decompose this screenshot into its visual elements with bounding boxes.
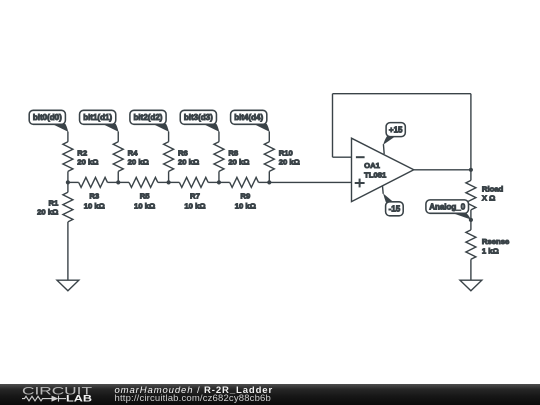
svg-text:bit0(d0): bit0(d0) [33, 113, 62, 122]
svg-text:20 kΩ: 20 kΩ [178, 158, 199, 167]
svg-text:R7: R7 [190, 192, 200, 201]
svg-text:20 kΩ: 20 kΩ [228, 158, 249, 167]
svg-text:20 kΩ: 20 kΩ [279, 158, 300, 167]
svg-text:Rload: Rload [482, 185, 504, 194]
svg-text:bit4(d4): bit4(d4) [234, 113, 263, 122]
svg-text:R1: R1 [48, 198, 59, 207]
svg-text:TL081: TL081 [364, 171, 387, 180]
svg-text:10 kΩ: 10 kΩ [134, 201, 155, 210]
svg-text:20 kΩ: 20 kΩ [77, 158, 98, 167]
svg-text:+15: +15 [389, 126, 403, 135]
svg-text:R5: R5 [140, 192, 151, 201]
svg-text:10 kΩ: 10 kΩ [84, 201, 105, 210]
svg-text:R4: R4 [128, 148, 139, 157]
svg-text:-15: -15 [389, 205, 401, 214]
svg-text:R6: R6 [178, 148, 188, 157]
svg-text:20 kΩ: 20 kΩ [37, 208, 58, 217]
svg-text:R9: R9 [240, 192, 250, 201]
svg-text:20 kΩ: 20 kΩ [128, 158, 149, 167]
svg-text:bit3(d3): bit3(d3) [184, 113, 213, 122]
svg-text:OA1: OA1 [364, 161, 381, 170]
svg-text:1 kΩ: 1 kΩ [482, 246, 499, 255]
svg-text:R10: R10 [279, 148, 293, 157]
svg-text:bit1(d1): bit1(d1) [83, 113, 112, 122]
svg-text:X Ω: X Ω [482, 194, 495, 203]
svg-text:LAB: LAB [66, 393, 92, 403]
svg-text:bit2(d2): bit2(d2) [134, 113, 163, 122]
svg-text:Analog_0: Analog_0 [429, 203, 466, 212]
svg-text:Rsense: Rsense [482, 237, 510, 246]
svg-text:10 kΩ: 10 kΩ [184, 201, 205, 210]
svg-text:10 kΩ: 10 kΩ [235, 201, 256, 210]
svg-text:R8: R8 [228, 148, 239, 157]
svg-text:R2: R2 [77, 148, 87, 157]
svg-text:R3: R3 [89, 192, 99, 201]
